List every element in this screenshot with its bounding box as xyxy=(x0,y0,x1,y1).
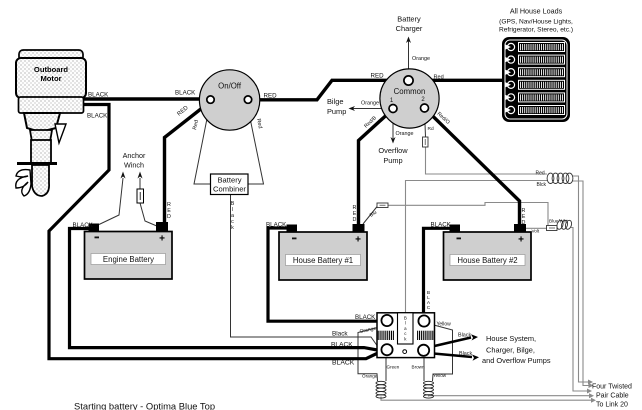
svg-text:Starting battery - Optima Bl: Starting battery - Optima Blue Top xyxy=(74,401,215,410)
svg-text:BLACK: BLACK xyxy=(266,222,287,229)
svg-text:House Battery #2: House Battery #2 xyxy=(457,256,517,265)
svg-text:Orange: Orange xyxy=(412,56,430,62)
svg-text:Volt: Volt xyxy=(532,229,540,234)
svg-text:Orange: Orange xyxy=(361,101,379,107)
svg-text:Black: Black xyxy=(332,331,348,338)
svg-text:BLACK: BLACK xyxy=(331,341,353,348)
svg-text:Combiner: Combiner xyxy=(213,185,246,194)
svg-text:D: D xyxy=(522,220,526,226)
svg-text:D: D xyxy=(167,214,171,220)
svg-text:Motor: Motor xyxy=(40,74,61,83)
svg-text:+: + xyxy=(159,234,165,245)
svg-text:Four Twisted: Four Twisted xyxy=(592,384,632,391)
svg-text:Charger, Bilge,: Charger, Bilge, xyxy=(486,346,535,355)
svg-text:k: k xyxy=(231,225,234,231)
svg-text:BLACK: BLACK xyxy=(175,90,196,97)
svg-text:RED: RED xyxy=(264,93,278,100)
svg-text:BLACK: BLACK xyxy=(73,222,94,229)
svg-text:BLACK: BLACK xyxy=(87,113,108,120)
svg-text:Anchor: Anchor xyxy=(123,151,146,160)
svg-text:D: D xyxy=(353,217,357,223)
svg-text:Orange: Orange xyxy=(362,374,378,379)
svg-text:and Overflow Pumps: and Overflow Pumps xyxy=(482,356,551,365)
svg-text:Yellow: Yellow xyxy=(437,322,452,328)
svg-text:Red: Red xyxy=(434,75,444,81)
svg-text:+: + xyxy=(518,235,524,246)
svg-text:Battery: Battery xyxy=(217,176,241,185)
svg-text:Orange: Orange xyxy=(396,131,414,137)
svg-text:Overflow: Overflow xyxy=(378,146,408,155)
svg-text:House Battery #1: House Battery #1 xyxy=(293,256,353,265)
svg-text:On/Off: On/Off xyxy=(218,82,242,91)
svg-text:+: + xyxy=(355,235,361,246)
svg-text:Battery: Battery xyxy=(397,15,421,24)
svg-text:Refrigerator, Stereo, etc.): Refrigerator, Stereo, etc.) xyxy=(499,27,573,34)
svg-text:Blck: Blck xyxy=(537,182,547,188)
svg-text:Winch: Winch xyxy=(124,161,144,170)
svg-text:RED: RED xyxy=(371,73,385,80)
svg-text:BLACK: BLACK xyxy=(431,222,452,229)
svg-text:BLACK: BLACK xyxy=(332,360,355,367)
svg-text:All House Loads: All House Loads xyxy=(510,7,563,16)
svg-text:Charger: Charger xyxy=(396,24,423,33)
svg-text:Engine Battery: Engine Battery xyxy=(103,255,154,264)
svg-text:To Link 20: To Link 20 xyxy=(596,402,628,409)
svg-text:Blue/Wht: Blue/Wht xyxy=(549,219,568,224)
svg-text:Rd: Rd xyxy=(428,126,434,132)
svg-text:C: C xyxy=(427,305,431,311)
svg-text:(GPS, Nav/House Lights,: (GPS, Nav/House Lights, xyxy=(499,19,573,26)
svg-text:Red: Red xyxy=(536,171,545,177)
svg-text:Pump: Pump xyxy=(327,107,346,116)
svg-text:Green: Green xyxy=(387,365,400,370)
svg-text:Common: Common xyxy=(394,87,426,96)
svg-text:Black: Black xyxy=(458,333,471,339)
svg-text:Yellow: Yellow xyxy=(433,373,447,378)
svg-text:Bilge: Bilge xyxy=(327,97,343,106)
svg-text:House System,: House System, xyxy=(486,334,536,343)
svg-text:Black: Black xyxy=(459,351,472,357)
svg-text:BLACK: BLACK xyxy=(355,314,376,321)
svg-text:Pump: Pump xyxy=(383,156,402,165)
svg-text:Pair Cable: Pair Cable xyxy=(596,393,629,400)
svg-text:BLACK: BLACK xyxy=(88,92,109,99)
svg-text:Brown: Brown xyxy=(412,365,425,370)
svg-text:Outboard: Outboard xyxy=(34,65,69,74)
